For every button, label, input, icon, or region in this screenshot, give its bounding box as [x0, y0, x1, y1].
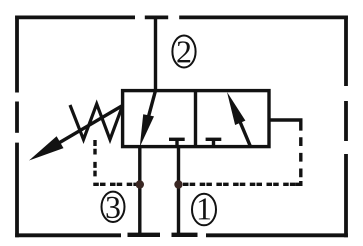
port label 1 digit	[199, 198, 210, 219]
port label 3 ellipse	[102, 192, 125, 222]
port label 2 digit	[177, 41, 190, 62]
junction dot at port 3	[136, 180, 144, 188]
wire port 1 line	[177, 147, 180, 235]
adjustment arrow shaft	[52, 106, 123, 148]
right cell blocked port T bar	[206, 138, 222, 141]
envelope left border middle segment	[15, 102, 19, 133]
spring zigzag	[70, 104, 123, 140]
left cell flow arrowhead	[140, 114, 154, 147]
pilot line solid corner right	[296, 181, 301, 184]
left cell blocked port T bar	[169, 138, 185, 141]
envelope bottom border right segment	[206, 233, 348, 237]
port 2 boundary bar	[145, 15, 168, 19]
right cell blocked port T stem	[212, 139, 215, 146]
envelope right border middle segment	[344, 101, 348, 141]
envelope bottom border left segment	[15, 233, 121, 237]
pilot line dashed vertical right	[299, 137, 302, 179]
adjustment arrowhead	[29, 136, 64, 160]
envelope top border left segment	[15, 15, 135, 19]
wire port 3 line	[138, 147, 141, 235]
envelope left border lower segment	[15, 143, 19, 238]
valve position divider	[194, 91, 197, 147]
port 3 boundary bar	[128, 233, 161, 237]
envelope top border right segment	[179, 15, 348, 19]
junction dot at port 1	[174, 180, 182, 188]
envelope left border upper segment	[15, 16, 19, 93]
pilot line dashed horizontal right	[183, 183, 296, 186]
port label 2 ellipse	[172, 36, 195, 68]
right cell flow arrow shaft	[238, 117, 251, 147]
envelope right border upper segment	[344, 16, 348, 87]
port label 3 digit	[107, 197, 120, 218]
left cell blocked port T stem	[175, 139, 178, 146]
port label 1 ellipse	[192, 194, 216, 226]
drain line dashed horizontal left	[93, 183, 137, 186]
valve body outline	[123, 91, 269, 147]
pilot stub solid elbow	[269, 120, 301, 131]
envelope right border lower segment	[344, 154, 348, 237]
drain line dashed vertical left	[93, 140, 96, 184]
right cell flow arrowhead	[227, 92, 245, 125]
port 1 boundary bar	[172, 233, 198, 237]
wire port 2 line	[154, 17, 157, 90]
left cell flow arrow shaft	[147, 91, 156, 124]
